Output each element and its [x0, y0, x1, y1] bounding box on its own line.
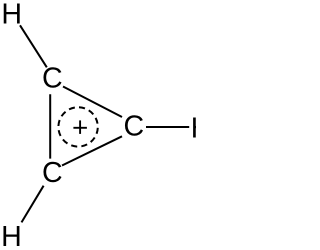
- atom C2 (right carbon): [124, 111, 145, 143]
- atom C1 (top carbon): [42, 62, 63, 94]
- bond C1-C2 (top right ring edge): [63, 87, 122, 118]
- plus charge symbol: [73, 120, 87, 133]
- svg-text:C: C: [42, 62, 63, 94]
- bond C3-C2 (bottom right ring edge): [62, 136, 122, 165]
- bond C3-H2: [22, 186, 44, 223]
- atom C3 (bottom carbon): [42, 157, 63, 189]
- svg-text:H: H: [1, 0, 22, 30]
- bond H1-C1: [20, 25, 47, 67]
- svg-text:H: H: [1, 221, 22, 250]
- atom H3 (right hydrogen, clipped at edge): [191, 113, 212, 145]
- atom H2 (bottom left hydrogen): [1, 221, 22, 250]
- atom H1 (top left hydrogen): [1, 0, 22, 30]
- bond C1-C3 (left ring edge): [49, 94, 51, 158]
- bond C2-H3: [146, 126, 189, 128]
- svg-text:C: C: [124, 111, 145, 143]
- svg-text:H: H: [191, 113, 196, 145]
- svg-text:C: C: [42, 157, 63, 189]
- delocalized charge dashed circle: [58, 107, 97, 146]
